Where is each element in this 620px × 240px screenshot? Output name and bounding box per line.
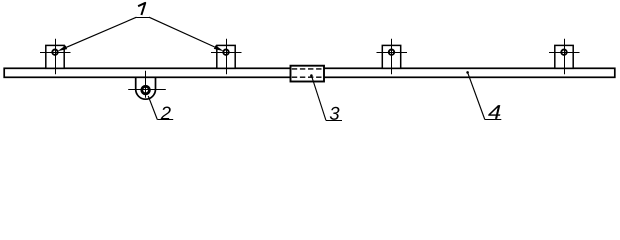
clamp 2 square bbox=[211, 39, 242, 74]
label 3 shelf bbox=[326, 120, 342, 122]
bar (long beam, item 4) bbox=[4, 68, 615, 77]
label 2 leader bbox=[148, 96, 157, 120]
clamp 1 square bbox=[40, 39, 71, 74]
label 2 text bbox=[161, 106, 171, 119]
clamp 3 square bbox=[377, 39, 408, 74]
label 4 shelf bbox=[485, 119, 502, 121]
label 3 leader dot bbox=[310, 74, 313, 77]
label 1 text bbox=[138, 3, 145, 15]
stirrup hanger (item 2) bbox=[128, 71, 166, 99]
label 4 leader bbox=[468, 72, 485, 119]
label 1 shelf bbox=[137, 17, 150, 19]
label 4 text bbox=[488, 105, 500, 119]
label 3 leader bbox=[311, 76, 326, 121]
coupling box (item 3) bbox=[291, 66, 325, 82]
label 2 shelf bbox=[157, 119, 173, 121]
label 1 leader right arrow bbox=[149, 17, 224, 51]
label 3 text bbox=[330, 107, 340, 120]
clamp 4 square bbox=[549, 39, 580, 74]
label 1 leader left arrow bbox=[57, 17, 136, 51]
label 4 leader dot bbox=[466, 71, 469, 74]
